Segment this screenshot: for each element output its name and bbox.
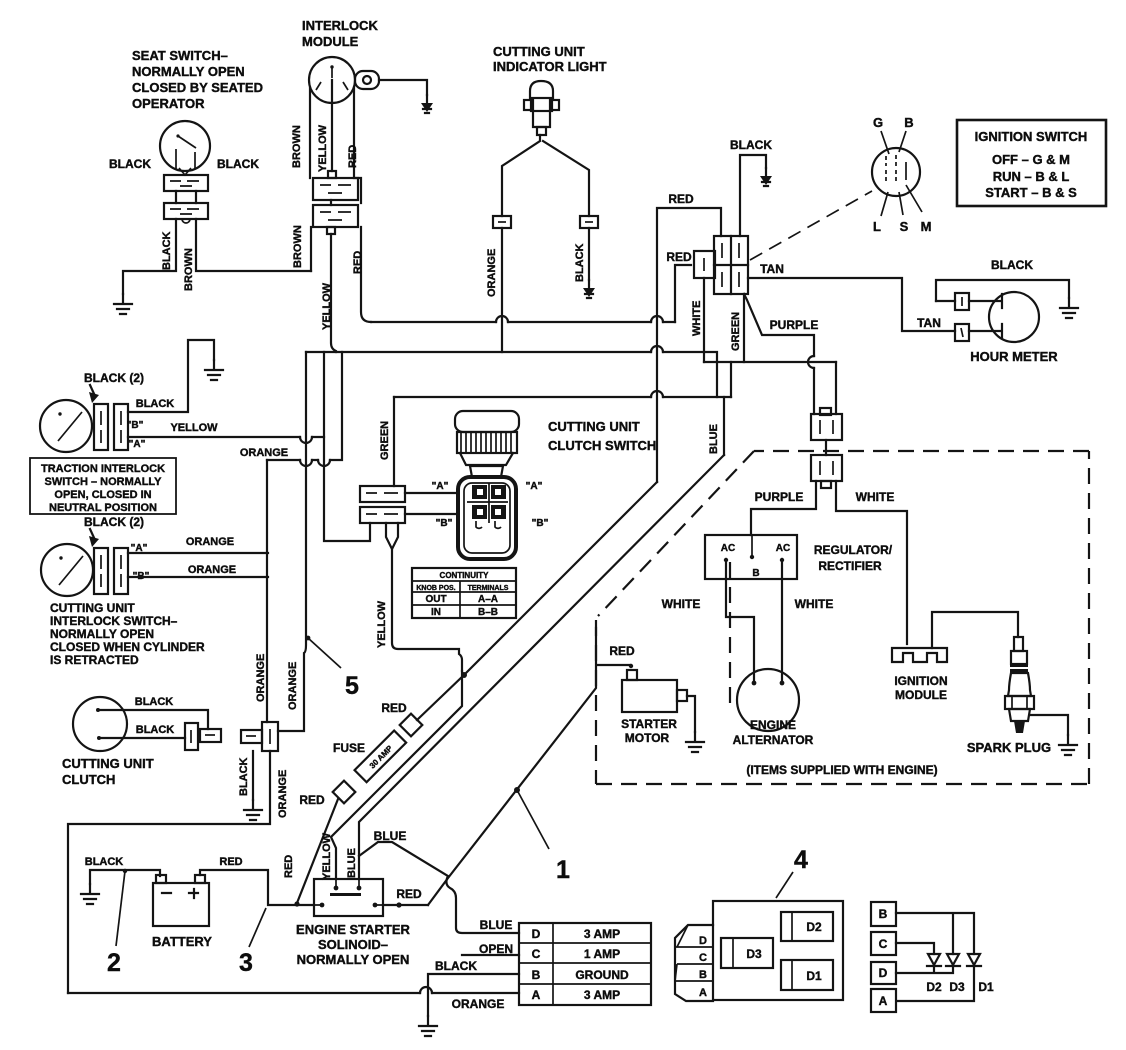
svg-text:BLACK: BLACK bbox=[730, 138, 772, 152]
svg-text:YELLOW: YELLOW bbox=[321, 282, 333, 330]
svg-text:BLACK (2): BLACK (2) bbox=[84, 515, 144, 529]
interlock connector block lower bbox=[313, 200, 358, 234]
clutch switch connector A bbox=[360, 486, 405, 502]
svg-text:SWITCH – NORMALLY: SWITCH – NORMALLY bbox=[45, 476, 163, 488]
wire black battery to ground bbox=[90, 870, 160, 884]
svg-text:RED: RED bbox=[666, 250, 692, 264]
seat switch S1 body bbox=[160, 121, 210, 175]
wire orange B to vertical bbox=[128, 576, 268, 578]
seat switch label bbox=[132, 48, 263, 111]
label STARTER MOTOR bbox=[621, 717, 677, 745]
svg-text:HOUR METER: HOUR METER bbox=[970, 349, 1058, 364]
svg-text:S: S bbox=[900, 219, 909, 234]
callout 5 leader bbox=[306, 636, 341, 668]
light right connector bbox=[580, 216, 598, 228]
wire C to diode D2 bbox=[896, 943, 934, 954]
wire white down to inline connector bbox=[835, 362, 837, 414]
engine alternator bbox=[737, 669, 799, 731]
ground table black bbox=[419, 1016, 437, 1036]
wire green from 4-cell connector down bbox=[743, 294, 745, 362]
wire A to body bbox=[405, 492, 458, 494]
wire black traction to ground bbox=[128, 340, 214, 412]
svg-text:RED: RED bbox=[347, 145, 359, 168]
svg-text:WHITE: WHITE bbox=[795, 597, 834, 611]
cutting unit interlock text bbox=[50, 601, 205, 667]
wire blue vertical from green bus bbox=[723, 397, 725, 455]
svg-text:NEUTRAL POSITION: NEUTRAL POSITION bbox=[49, 502, 157, 514]
svg-text:YELLOW: YELLOW bbox=[170, 422, 218, 434]
svg-text:"A": "A" bbox=[129, 439, 146, 450]
wire open stub bbox=[462, 954, 519, 956]
wire red solenoid right bbox=[383, 904, 428, 906]
wire black from light to ground arrow bbox=[588, 228, 590, 280]
green wire to clutch switch connector bbox=[393, 397, 395, 486]
ground arrow light bbox=[583, 280, 595, 298]
interlock module ground tab bbox=[355, 71, 379, 89]
svg-text:OPERATOR: OPERATOR bbox=[132, 96, 205, 111]
svg-text:D3: D3 bbox=[949, 980, 965, 994]
traction switch connector 1 bbox=[94, 404, 108, 450]
svg-text:C: C bbox=[699, 952, 707, 964]
svg-text:L: L bbox=[873, 219, 881, 234]
ignition switch info box bbox=[957, 120, 1106, 206]
svg-text:WHITE: WHITE bbox=[856, 490, 895, 504]
battery bbox=[153, 875, 209, 926]
interlock module body bbox=[309, 57, 361, 203]
wire connector to meter bbox=[969, 294, 1002, 308]
svg-text:A–A: A–A bbox=[478, 594, 498, 605]
spark plug bbox=[1005, 637, 1034, 733]
hour meter tan connector bbox=[955, 324, 969, 341]
svg-text:STARTER: STARTER bbox=[621, 717, 677, 731]
clutch switch body bbox=[458, 477, 516, 559]
wire yellow bus H3 bbox=[306, 352, 717, 397]
svg-text:BLACK: BLACK bbox=[136, 398, 175, 410]
svg-text:IGNITION SWITCH: IGNITION SWITCH bbox=[975, 129, 1088, 144]
cutting unit clutch circle bbox=[73, 697, 127, 751]
diode D1 bbox=[967, 954, 981, 966]
svg-text:REGULATOR/: REGULATOR/ bbox=[814, 543, 893, 557]
wire spark plug to ground bbox=[1030, 715, 1068, 735]
wire blue branch to fuse table bbox=[359, 842, 519, 933]
svg-text:A: A bbox=[879, 994, 888, 1008]
diode pin A bbox=[871, 989, 896, 1012]
svg-text:(ITEMS SUPPLIED WITH ENGINE): (ITEMS SUPPLIED WITH ENGINE) bbox=[746, 763, 937, 777]
svg-text:"A": "A" bbox=[526, 481, 543, 492]
svg-text:ENGINE: ENGINE bbox=[750, 718, 796, 732]
wire yellow from interlock connector down bbox=[331, 234, 336, 352]
svg-text:NORMALLY OPEN: NORMALLY OPEN bbox=[297, 952, 410, 967]
svg-text:CLUTCH: CLUTCH bbox=[62, 772, 115, 787]
traction switch connector 2 bbox=[114, 404, 128, 450]
svg-text:OUT: OUT bbox=[425, 594, 446, 605]
svg-text:D3: D3 bbox=[746, 947, 762, 961]
wire yellow diagonal to solenoid bbox=[331, 671, 462, 879]
svg-text:BLUE: BLUE bbox=[708, 424, 720, 454]
svg-text:4: 4 bbox=[794, 846, 808, 874]
svg-text:TAN: TAN bbox=[917, 316, 941, 330]
interlock module label bbox=[302, 18, 378, 49]
svg-text:ORANGE: ORANGE bbox=[287, 662, 299, 710]
svg-text:1 AMP: 1 AMP bbox=[584, 947, 620, 961]
svg-text:BLUE: BLUE bbox=[480, 918, 513, 932]
svg-text:INTERLOCK: INTERLOCK bbox=[302, 18, 378, 33]
svg-text:PURPLE: PURPLE bbox=[755, 490, 804, 504]
svg-text:B–B: B–B bbox=[478, 607, 498, 618]
svg-text:D: D bbox=[699, 935, 707, 947]
svg-text:CLUTCH SWITCH: CLUTCH SWITCH bbox=[548, 438, 656, 453]
svg-text:START – B & S: START – B & S bbox=[985, 185, 1077, 200]
ground traction bbox=[205, 360, 223, 380]
label REGULATOR RECTIFIER bbox=[814, 543, 893, 573]
interlock module wire to connector bbox=[331, 80, 333, 171]
continuity table bbox=[412, 568, 516, 618]
seat switch connector block lower bbox=[164, 191, 208, 223]
svg-text:SOLINOID–: SOLINOID– bbox=[318, 937, 388, 952]
svg-text:TERMINALS: TERMINALS bbox=[468, 585, 509, 592]
svg-text:AC: AC bbox=[721, 543, 735, 554]
svg-text:D1: D1 bbox=[978, 980, 994, 994]
wire orange bottom bus bbox=[68, 992, 519, 994]
svg-text:CONTINUITY: CONTINUITY bbox=[440, 571, 490, 580]
label IGNITION MODULE bbox=[894, 674, 947, 702]
svg-text:D2: D2 bbox=[926, 980, 942, 994]
wire yellow from traction A bbox=[128, 436, 324, 438]
svg-text:MODULE: MODULE bbox=[895, 688, 947, 702]
svg-text:ORANGE: ORANGE bbox=[486, 249, 498, 297]
starter motor bbox=[622, 664, 687, 712]
svg-text:A: A bbox=[699, 987, 707, 999]
svg-text:BLACK: BLACK bbox=[217, 157, 259, 171]
svg-text:AC: AC bbox=[776, 543, 790, 554]
svg-text:B: B bbox=[699, 969, 707, 981]
svg-text:B: B bbox=[752, 568, 759, 579]
light wires V split bbox=[502, 135, 589, 216]
ignition module comb bbox=[892, 648, 947, 662]
svg-text:BLACK (2): BLACK (2) bbox=[84, 371, 144, 385]
dashed leader to ignition switch bbox=[750, 191, 872, 260]
callout 4 leader bbox=[776, 872, 793, 898]
wire module to spark plug bbox=[932, 612, 1018, 648]
svg-text:ORANGE: ORANGE bbox=[240, 447, 288, 459]
svg-text:BLACK: BLACK bbox=[109, 157, 151, 171]
diode pin B bbox=[871, 902, 896, 926]
svg-text:C: C bbox=[532, 947, 541, 961]
wire white AC left to alternator bbox=[726, 560, 754, 680]
cu interlock connector 2 bbox=[114, 548, 128, 594]
svg-text:BLACK: BLACK bbox=[574, 243, 586, 282]
svg-text:B: B bbox=[532, 968, 541, 982]
interlock connector block upper bbox=[313, 178, 358, 200]
svg-text:ORANGE: ORANGE bbox=[255, 654, 267, 702]
wire black from seat switch to ground bbox=[123, 219, 176, 294]
svg-text:ALTERNATOR: ALTERNATOR bbox=[733, 733, 814, 747]
svg-text:M: M bbox=[921, 219, 932, 234]
svg-text:"B": "B" bbox=[127, 420, 144, 431]
svg-text:G: G bbox=[873, 115, 883, 130]
svg-text:3 AMP: 3 AMP bbox=[584, 927, 620, 941]
svg-text:KNOB POS.: KNOB POS. bbox=[416, 585, 455, 592]
junction dot yellow-fuse bbox=[461, 672, 467, 678]
svg-text:MODULE: MODULE bbox=[302, 34, 359, 49]
wire white AC right to alternator bbox=[781, 560, 783, 680]
label BLACK (2) cutting unit bbox=[84, 515, 144, 547]
wire red top run bbox=[657, 208, 721, 482]
svg-text:ORANGE: ORANGE bbox=[186, 536, 234, 548]
ground harness connector bbox=[244, 800, 262, 820]
wire green bus H4 bbox=[394, 396, 731, 398]
svg-text:5: 5 bbox=[345, 672, 359, 700]
svg-text:BLACK: BLACK bbox=[161, 231, 173, 270]
svg-text:RED: RED bbox=[219, 856, 242, 868]
wire starter to ground bbox=[687, 696, 695, 732]
svg-text:NORMALLY OPEN: NORMALLY OPEN bbox=[50, 627, 154, 641]
label BLACK (2) traction bbox=[84, 371, 144, 403]
svg-text:RED: RED bbox=[283, 855, 295, 878]
svg-text:ENGINE STARTER: ENGINE STARTER bbox=[296, 922, 410, 937]
yellow nib below connector bbox=[386, 523, 398, 549]
svg-text:CUTTING UNIT: CUTTING UNIT bbox=[548, 419, 640, 434]
svg-text:YELLOW: YELLOW bbox=[321, 832, 333, 880]
svg-text:INTERLOCK SWITCH–: INTERLOCK SWITCH– bbox=[50, 614, 178, 628]
wire black from connector to ground bbox=[252, 751, 254, 800]
svg-text:YELLOW: YELLOW bbox=[317, 124, 329, 172]
fuse body 30 AMP bbox=[355, 731, 407, 783]
svg-text:OFF – G & M: OFF – G & M bbox=[992, 152, 1070, 167]
seat switch connector block upper bbox=[164, 175, 208, 191]
svg-text:INDICATOR LIGHT: INDICATOR LIGHT bbox=[493, 59, 607, 74]
inline connector lower bbox=[811, 455, 842, 488]
engine starter solenoid bbox=[314, 879, 383, 916]
fuse upper diamond bbox=[400, 714, 423, 737]
svg-text:B: B bbox=[904, 115, 913, 130]
svg-text:RED: RED bbox=[352, 251, 364, 274]
fuse D1 bbox=[781, 960, 833, 990]
svg-text:RED: RED bbox=[299, 793, 325, 807]
indicator light bulb bbox=[524, 81, 559, 135]
wire red from interlock connector down to bus bbox=[361, 227, 371, 322]
svg-text:ORANGE: ORANGE bbox=[277, 770, 289, 818]
svg-text:IN: IN bbox=[431, 607, 441, 618]
svg-text:2: 2 bbox=[107, 949, 121, 977]
wire white from single connector down bbox=[703, 278, 705, 362]
wire red diagonal to solenoid bbox=[297, 799, 338, 903]
4-cell ignition connector bbox=[714, 236, 748, 294]
ground hour meter bbox=[1060, 298, 1078, 318]
callout 1 leader bbox=[514, 787, 549, 849]
svg-text:RED: RED bbox=[381, 701, 407, 715]
junction dot red-fuse bbox=[294, 901, 299, 906]
svg-text:BLACK: BLACK bbox=[991, 258, 1033, 272]
ground seat switch bbox=[114, 294, 132, 314]
diode D2 bbox=[927, 954, 941, 966]
cutting unit interlock switch body bbox=[41, 544, 93, 596]
ignition terminal labels bbox=[873, 115, 931, 234]
fuse amp table bbox=[519, 923, 651, 1005]
svg-text:WHITE: WHITE bbox=[691, 301, 703, 336]
svg-text:3: 3 bbox=[239, 949, 253, 977]
svg-text:RECTIFIER: RECTIFIER bbox=[818, 559, 882, 573]
hour meter body bbox=[989, 292, 1039, 342]
wire A to diode D1 bbox=[897, 966, 974, 1001]
label ENGINE STARTER SOLINOID bbox=[296, 922, 410, 967]
dashed engine box bbox=[596, 451, 1089, 784]
wire red battery to solenoid bbox=[200, 870, 314, 905]
svg-text:D: D bbox=[532, 927, 541, 941]
svg-text:BROWN: BROWN bbox=[292, 225, 304, 268]
callout 3 leader bbox=[249, 908, 266, 947]
clutch switch connector B bbox=[360, 507, 405, 523]
svg-text:3 AMP: 3 AMP bbox=[584, 988, 620, 1002]
riser from green bus bbox=[730, 362, 732, 397]
cu interlock connector 1 bbox=[94, 548, 108, 594]
callout 2 leader bbox=[116, 869, 127, 946]
cutting unit indicator light label bbox=[493, 44, 607, 74]
svg-text:PURPLE: PURPLE bbox=[770, 318, 819, 332]
ground battery bbox=[81, 884, 99, 904]
svg-text:"B": "B" bbox=[436, 518, 453, 529]
junction dot red right bbox=[396, 902, 401, 907]
wire red bus riser to single connector bbox=[675, 265, 691, 322]
svg-text:ORANGE: ORANGE bbox=[188, 564, 236, 576]
svg-text:D: D bbox=[879, 966, 888, 980]
wire yellow riser to clutch feed bbox=[324, 352, 370, 541]
pin labels clutch switch bbox=[432, 481, 549, 529]
wire red diagonal fuse run upper bbox=[417, 482, 657, 720]
wire purple from 4-cell to inline connector bbox=[744, 294, 814, 414]
svg-text:FUSE: FUSE bbox=[333, 741, 365, 755]
svg-text:D2: D2 bbox=[806, 920, 822, 934]
svg-text:BLACK: BLACK bbox=[238, 757, 250, 796]
svg-text:SPARK PLUG: SPARK PLUG bbox=[967, 740, 1051, 755]
single inline connector bbox=[694, 251, 715, 278]
diode D3 bbox=[946, 954, 960, 966]
wire orange A to vertical bbox=[128, 552, 268, 554]
svg-text:BLACK: BLACK bbox=[85, 856, 124, 868]
svg-text:WHITE: WHITE bbox=[662, 597, 701, 611]
svg-text:MOTOR: MOTOR bbox=[625, 731, 670, 745]
ground interlock module bbox=[421, 95, 433, 113]
wire brown lower from interlock connector bbox=[310, 227, 312, 271]
svg-text:CUTTING UNIT: CUTTING UNIT bbox=[62, 756, 154, 771]
svg-text:BATTERY: BATTERY bbox=[152, 934, 212, 949]
svg-text:C: C bbox=[879, 937, 888, 951]
clutch connector pair bbox=[185, 723, 221, 750]
svg-text:SEAT SWITCH–: SEAT SWITCH– bbox=[132, 48, 228, 63]
wire orange1 vertical bbox=[266, 460, 268, 722]
dashed inner divider bbox=[729, 562, 731, 706]
wire tan from connector to hour meter bbox=[748, 278, 955, 331]
ignition switch circle bbox=[872, 131, 922, 216]
svg-text:RED: RED bbox=[396, 887, 422, 901]
wire between inline connectors bbox=[825, 440, 827, 455]
wire orange bus bbox=[267, 352, 342, 460]
fuse D2 bbox=[781, 912, 833, 941]
wire black hour meter to ground bbox=[936, 280, 1069, 301]
svg-text:IGNITION: IGNITION bbox=[894, 674, 947, 688]
wire red-1 diagonal to starter bbox=[428, 628, 630, 905]
wire B to body bbox=[405, 513, 458, 515]
regulator rectifier box bbox=[705, 535, 797, 579]
svg-text:D1: D1 bbox=[806, 969, 822, 983]
fuse D3 bbox=[721, 938, 773, 968]
svg-text:ORANGE: ORANGE bbox=[452, 997, 505, 1011]
label CUTTING UNIT CLUTCH SWITCH bbox=[548, 419, 656, 453]
svg-text:RED: RED bbox=[668, 192, 694, 206]
svg-text:TAN: TAN bbox=[760, 262, 784, 276]
svg-text:BROWN: BROWN bbox=[183, 248, 195, 291]
wire red bus H2 from interlock module bbox=[371, 321, 675, 323]
wire white to ignition module bbox=[836, 481, 907, 644]
svg-text:IS RETRACTED: IS RETRACTED bbox=[50, 653, 139, 667]
svg-text:CLOSED BY SEATED: CLOSED BY SEATED bbox=[132, 80, 263, 95]
wire yellow nib down to fuse junction bbox=[392, 549, 462, 671]
svg-text:"B": "B" bbox=[532, 518, 549, 529]
wire tab to ground bbox=[379, 80, 427, 95]
ground black ignition bbox=[760, 168, 772, 186]
svg-text:RED: RED bbox=[609, 644, 635, 658]
wire blue diagonal to solenoid bbox=[359, 455, 724, 879]
wire orange below connector to left bus bbox=[68, 751, 270, 993]
orange harness connector bbox=[241, 722, 278, 751]
svg-text:BLACK: BLACK bbox=[135, 696, 174, 708]
svg-text:CLOSED WHEN CYLINDER: CLOSED WHEN CYLINDER bbox=[50, 640, 205, 654]
wire brown from seat switch to interlock module bbox=[196, 219, 311, 271]
ground spark plug bbox=[1059, 735, 1077, 755]
hour meter black connector bbox=[936, 293, 969, 310]
diode pin D bbox=[871, 962, 896, 984]
label ENGINE ALTERNATOR bbox=[733, 718, 814, 747]
junction elbow horizontal bbox=[704, 361, 836, 363]
traction interlock switch body bbox=[40, 400, 92, 452]
svg-text:1: 1 bbox=[556, 856, 570, 884]
svg-text:B: B bbox=[879, 907, 888, 921]
wire D to diodes bbox=[896, 966, 953, 973]
fuse lower diamond bbox=[333, 781, 356, 804]
light left connector bbox=[493, 216, 511, 228]
svg-text:A: A bbox=[532, 988, 541, 1002]
svg-text:CUTTING UNIT: CUTTING UNIT bbox=[493, 44, 585, 59]
svg-text:GREEN: GREEN bbox=[379, 421, 391, 460]
diode pin C bbox=[871, 932, 896, 955]
svg-text:GROUND: GROUND bbox=[575, 968, 629, 982]
wire orange from light down to bus bbox=[501, 228, 503, 352]
svg-text:TRACTION INTERLOCK: TRACTION INTERLOCK bbox=[41, 463, 165, 475]
wire black ignition connector to ground bbox=[740, 155, 766, 236]
inline connector upper bbox=[811, 408, 842, 440]
svg-text:OPEN, CLOSED IN: OPEN, CLOSED IN bbox=[54, 489, 151, 501]
svg-text:BLUE: BLUE bbox=[346, 848, 358, 878]
ground starter bbox=[686, 732, 704, 752]
wire black to ground table bbox=[428, 974, 519, 1016]
fuse block housing bbox=[675, 901, 843, 1001]
label CUTTING UNIT CLUTCH bbox=[62, 756, 154, 787]
svg-text:"A": "A" bbox=[432, 481, 449, 492]
svg-text:NORMALLY OPEN: NORMALLY OPEN bbox=[132, 64, 245, 79]
svg-text:GREEN: GREEN bbox=[730, 312, 742, 351]
svg-text:BROWN: BROWN bbox=[291, 125, 303, 168]
svg-text:YELLOW: YELLOW bbox=[376, 600, 388, 648]
wire black clutch 2 bbox=[99, 737, 185, 739]
svg-text:RUN – B & L: RUN – B & L bbox=[993, 169, 1070, 184]
clutch switch knob bbox=[455, 411, 519, 477]
wire B to diodes bbox=[896, 913, 974, 954]
wire purple to regulator B bbox=[751, 481, 816, 535]
svg-text:CUTTING UNIT: CUTTING UNIT bbox=[50, 601, 135, 615]
wire tan connector to meter bbox=[969, 324, 1002, 338]
svg-text:BLACK: BLACK bbox=[136, 724, 175, 736]
wire orange2 vertical bbox=[278, 352, 306, 731]
